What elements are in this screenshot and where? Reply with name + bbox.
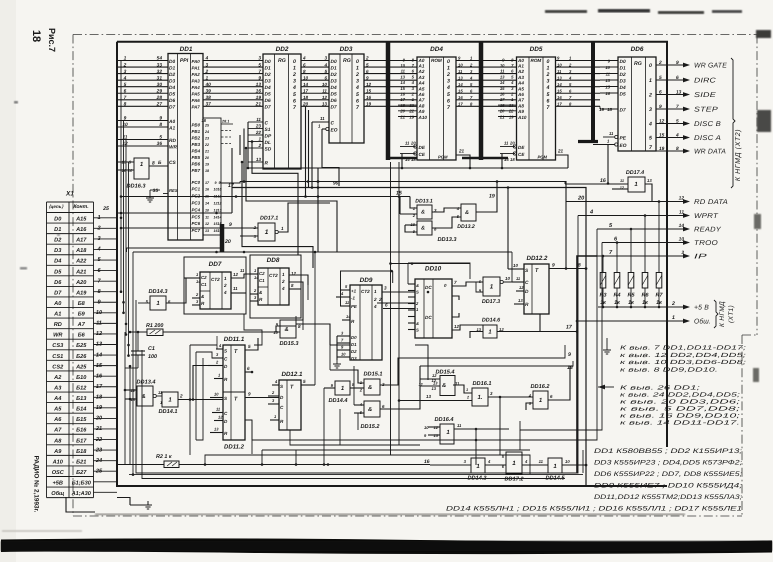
- svg-text:C1: C1: [259, 278, 265, 283]
- svg-text:WR GATE: WR GATE: [694, 63, 727, 70]
- svg-text:1: 1: [265, 229, 269, 236]
- svg-text:8: 8: [676, 146, 679, 152]
- wire DD11 left h2: [196, 352, 223, 358]
- svg-text:DE: DE: [518, 145, 525, 150]
- svg-text:CT2: CT2: [211, 277, 220, 282]
- wire left riser 1: [120, 61, 122, 292]
- svg-text:11: 11: [256, 117, 261, 122]
- wire DD16 feed: [415, 345, 428, 380]
- svg-text:28: 28: [156, 95, 163, 101]
- svg-text:A4: A4: [418, 81, 425, 86]
- svg-text:5: 5: [248, 344, 251, 349]
- svg-text:Б13: Б13: [76, 396, 87, 402]
- svg-text:12: 12: [519, 285, 524, 290]
- svg-text:14: 14: [400, 80, 405, 85]
- svg-text:2: 2: [446, 72, 450, 78]
- wire DD14.4 to DD15.1: [350, 387, 364, 389]
- wire long y213: [117, 212, 232, 214]
- svg-text:9: 9: [659, 104, 662, 110]
- svg-text:2: 2: [223, 283, 227, 288]
- svg-text:19: 19: [509, 114, 514, 119]
- wire DD10 loop top: [391, 263, 471, 265]
- svg-text:DD14.4: DD14.4: [329, 398, 349, 404]
- svg-text:4: 4: [205, 56, 209, 62]
- svg-text:22: 22: [255, 130, 262, 135]
- wire DD15.1 in1: [330, 370, 364, 383]
- svg-text:10: 10: [500, 63, 505, 68]
- svg-text:13: 13: [322, 102, 328, 107]
- svg-text:ROM: ROM: [431, 58, 442, 63]
- svg-text:1: 1: [224, 276, 227, 281]
- wire DD8 R ins: [250, 293, 258, 295]
- svg-text:10: 10: [322, 82, 328, 87]
- svg-text:1: 1: [547, 66, 550, 72]
- svg-text:D4: D4: [169, 85, 175, 91]
- wire DD17.1 in2: [240, 235, 258, 237]
- IC DD6 К555ИР22: [599, 46, 656, 151]
- svg-text:DD4: DD4: [430, 46, 443, 53]
- svg-text:10: 10: [679, 237, 685, 243]
- svg-text:19: 19: [205, 162, 209, 166]
- svg-text:17: 17: [557, 102, 562, 107]
- svg-text:6: 6: [547, 98, 550, 104]
- ground symbol power note: [603, 346, 611, 354]
- svg-text:2: 2: [179, 394, 183, 399]
- svg-text:9: 9: [229, 222, 232, 228]
- svg-text:1: 1: [293, 66, 296, 72]
- svg-text:16: 16: [500, 92, 505, 97]
- svg-text:1: 1: [466, 388, 468, 392]
- wire PB dashed stubs: [221, 131, 231, 144]
- svg-text:38: 38: [206, 95, 212, 101]
- svg-text:DD9: DD9: [360, 277, 373, 284]
- wire PC trunk: [220, 224, 225, 252]
- svg-text:CE: CE: [419, 152, 426, 157]
- svg-text:0: 0: [293, 59, 296, 65]
- svg-text:D0: D0: [169, 59, 175, 65]
- wire bottom h440: [252, 439, 476, 441]
- svg-text:DD15.4: DD15.4: [436, 370, 456, 376]
- scan speck right 1: [756, 30, 771, 38]
- wire mid v330: [329, 324, 331, 370]
- wire DD3 EO down: [322, 129, 339, 186]
- svg-text:A8: A8: [418, 103, 425, 108]
- svg-text:&: &: [465, 210, 469, 216]
- svg-text:13: 13: [500, 74, 505, 79]
- svg-text:11: 11: [609, 131, 614, 136]
- wire DD6 PE stub: [603, 136, 615, 138]
- svg-text:7: 7: [676, 104, 679, 110]
- wire DD16.1 out: [488, 396, 533, 398]
- wire DD14.3 in: [138, 302, 150, 304]
- svg-text:4: 4: [223, 290, 227, 295]
- svg-text:PC5: PC5: [192, 214, 201, 219]
- svg-text:16: 16: [366, 95, 372, 100]
- svg-text:PE: PE: [620, 135, 627, 141]
- wire DD13.1 in2: [400, 213, 417, 215]
- svg-text:6: 6: [447, 98, 450, 104]
- svg-text:D1: D1: [331, 65, 337, 71]
- wire DD2 S1 drop: [243, 129, 245, 182]
- svg-text:STEP: STEP: [694, 107, 718, 114]
- svg-text:D2: D2: [331, 72, 337, 78]
- svg-text:Б21: Б21: [76, 459, 86, 465]
- wire DD2 C drop: [247, 122, 249, 168]
- svg-text:3: 3: [384, 286, 387, 291]
- connector X1 table: [47, 191, 118, 498]
- crop line top: [73, 34, 757, 36]
- svg-text:7: 7: [258, 69, 261, 75]
- flip-flop DD12.2: [524, 255, 549, 314]
- svg-text:A6: A6: [517, 92, 524, 97]
- svg-text:4: 4: [546, 85, 550, 91]
- wire DD4 CE stub: [400, 153, 416, 155]
- svg-text:PGM: PGM: [538, 155, 548, 160]
- svg-text:D7: D7: [54, 290, 62, 296]
- svg-text:15: 15: [504, 157, 509, 162]
- svg-text:A2: A2: [53, 375, 62, 381]
- svg-text:25: 25: [102, 206, 109, 212]
- svg-text:23: 23: [408, 103, 414, 108]
- wire DD13.1b ins: [405, 224, 417, 226]
- svg-text:5: 5: [547, 92, 550, 98]
- svg-text:9: 9: [159, 116, 162, 122]
- wire SD long: [231, 148, 233, 213]
- svg-text:D2: D2: [54, 238, 62, 244]
- ground DD9: [333, 360, 341, 368]
- svg-text:15: 15: [366, 88, 372, 93]
- svg-text:15: 15: [605, 84, 610, 89]
- svg-text:40: 40: [205, 82, 212, 88]
- svg-text:Обш.: Обш.: [694, 318, 711, 326]
- flip-flop DD11.1 DD11.2: [223, 336, 245, 451]
- wire DD16.2 in2: [526, 403, 533, 410]
- svg-text:6: 6: [366, 69, 369, 74]
- svg-text:А15: А15: [75, 217, 87, 223]
- gate DD17.1: [258, 223, 275, 241]
- svg-text:4: 4: [323, 62, 327, 67]
- svg-text:14: 14: [205, 202, 209, 206]
- svg-text:10: 10: [505, 276, 510, 281]
- svg-text:DD15.1: DD15.1: [364, 372, 383, 378]
- wire bus DD2 to DD3: [301, 56, 329, 107]
- svg-text:DD13.2: DD13.2: [457, 224, 475, 230]
- svg-text:17: 17: [400, 97, 405, 102]
- svg-text:5: 5: [258, 62, 261, 68]
- svg-text:28.1: 28.1: [221, 120, 229, 124]
- node output signals WR GATE DIRC SIDE STEP DISC B DISC A WR DATA: [656, 60, 727, 156]
- wire mid v340: [339, 409, 341, 445]
- wire DD10 outs drop: [465, 282, 467, 286]
- wire left riser 1b: [123, 121, 125, 313]
- wire DD7 R ins: [192, 297, 200, 299]
- wire right v520: [519, 430, 521, 450]
- svg-text:21: 21: [499, 114, 505, 119]
- wire DD10 out7: [452, 282, 483, 286]
- svg-text:2: 2: [365, 56, 369, 61]
- svg-text:13: 13: [426, 394, 431, 399]
- svg-text:15: 15: [400, 86, 405, 91]
- wire DD14.6 out: [497, 314, 540, 332]
- svg-text:DC: DC: [425, 315, 432, 320]
- svg-text:C: C: [265, 120, 269, 126]
- svg-text:A4: A4: [517, 81, 524, 86]
- svg-text:18: 18: [201, 118, 206, 123]
- wire DD11 left bundle1: [189, 345, 191, 455]
- svg-text:29: 29: [156, 88, 163, 94]
- wire y248 left: [127, 247, 221, 249]
- svg-text:16: 16: [600, 178, 606, 184]
- wire DD8 out drop: [302, 282, 304, 330]
- svg-text:8: 8: [298, 324, 301, 329]
- wire DD17.1 out: [278, 203, 330, 232]
- wire +5V rail: [598, 306, 687, 308]
- svg-text:14: 14: [405, 157, 410, 162]
- svg-text:RES: RES: [169, 188, 178, 193]
- wire left riser 3: [129, 366, 131, 465]
- svg-text:11: 11: [458, 69, 463, 74]
- svg-text:Б6: Б6: [78, 333, 86, 339]
- wire v430 mid: [427, 345, 429, 380]
- svg-text:D1: D1: [54, 227, 61, 233]
- svg-text:R1 200: R1 200: [146, 323, 163, 329]
- svg-text:A9: A9: [418, 109, 425, 114]
- svg-text:A1: A1: [53, 312, 61, 318]
- bus bar 2 stub left: [462, 157, 481, 160]
- svg-text:16: 16: [256, 88, 262, 94]
- wire mid v358b: [357, 413, 359, 430]
- svg-text:14: 14: [500, 80, 505, 85]
- gate DD14.2: [471, 458, 485, 473]
- svg-text:18: 18: [607, 107, 612, 112]
- svg-text:&: &: [421, 226, 425, 232]
- svg-text:PB3: PB3: [192, 142, 201, 147]
- svg-text:C: C: [525, 280, 529, 286]
- svg-text:к выв. 5 DD7,DD8;: к выв. 5 DD7,DD8;: [620, 406, 741, 413]
- svg-text:17: 17: [500, 97, 505, 102]
- wire DD17.3 ins: [476, 282, 483, 292]
- svg-text:5: 5: [324, 69, 327, 74]
- wire PB0 dashed: [221, 123, 233, 125]
- gate DD15.4: [440, 376, 455, 396]
- svg-text:S1: S1: [265, 127, 271, 133]
- svg-text:CS1: CS1: [52, 354, 63, 360]
- svg-text:10: 10: [557, 62, 562, 67]
- wire DD11 bottom h: [196, 430, 203, 440]
- svg-text:К НГМД: К НГМД: [719, 301, 726, 327]
- svg-text:PA7: PA7: [192, 105, 201, 110]
- wire DD11 bottom: [245, 420, 252, 454]
- svg-text:PB5: PB5: [192, 155, 201, 160]
- svg-text:D4: D4: [54, 259, 62, 265]
- svg-text:DC: DC: [425, 285, 432, 290]
- svg-text:PA4: PA4: [192, 85, 201, 90]
- IC DD3 К555ИР23: [326, 46, 364, 143]
- svg-text:9: 9: [248, 392, 251, 397]
- wire DD5 DE stub: [500, 146, 515, 148]
- svg-text:C: C: [331, 120, 335, 126]
- svg-text:DD8: DD8: [267, 257, 280, 264]
- svg-text:9: 9: [552, 263, 555, 269]
- svg-text:14: 14: [303, 82, 309, 87]
- svg-text:A2: A2: [517, 69, 524, 74]
- wire DD2 DP drop: [239, 135, 241, 155]
- scan speck right 4: [753, 368, 759, 382]
- svg-text:PB1: PB1: [192, 129, 201, 134]
- crop line bottom: [73, 515, 742, 517]
- svg-text:10: 10: [565, 459, 570, 464]
- wire DD16.3 to CS: [149, 165, 168, 167]
- svg-text:22: 22: [508, 109, 514, 114]
- wire DD10 out12: [452, 325, 483, 330]
- svg-text:A3: A3: [418, 75, 425, 80]
- svg-text:A9: A9: [53, 449, 62, 455]
- svg-text:13: 13: [400, 74, 405, 79]
- svg-text:20: 20: [577, 196, 585, 202]
- svg-text:17: 17: [303, 88, 309, 93]
- svg-text:A5: A5: [418, 86, 425, 91]
- svg-text:-1: -1: [351, 296, 355, 301]
- svg-text:D2: D2: [265, 72, 271, 78]
- svg-text:27: 27: [156, 102, 163, 108]
- svg-text:DIRC: DIRC: [694, 78, 717, 85]
- svg-text:Рис.7: Рис.7: [47, 28, 57, 52]
- bus bar 2 stub right: [481, 157, 508, 160]
- wire DD14.1 out: [178, 399, 223, 401]
- svg-text:к выв. 14 DD11-DD17.: к выв. 14 DD11-DD17.: [620, 420, 740, 427]
- svg-text:D2: D2: [620, 72, 626, 78]
- svg-text:36: 36: [157, 141, 163, 147]
- svg-text:OSC: OSC: [52, 470, 65, 476]
- svg-text:DD17.3: DD17.3: [482, 299, 500, 305]
- wire DD17.4 input: [565, 183, 628, 185]
- wire R2 out: [179, 464, 430, 466]
- wire DD10 loop: [408, 263, 470, 279]
- svg-text:5: 5: [676, 118, 679, 124]
- svg-text:9: 9: [124, 116, 127, 122]
- wire DD17.4 in2: [612, 188, 628, 190]
- wire DD5 CE down: [501, 154, 503, 169]
- svg-text:A9: A9: [517, 109, 524, 114]
- svg-text:9: 9: [215, 181, 217, 185]
- svg-text:19: 19: [489, 194, 495, 200]
- wire DD15.4 ins: [420, 378, 440, 380]
- svg-text:D4: D4: [620, 85, 626, 91]
- svg-text:DD13.1: DD13.1: [415, 199, 433, 205]
- svg-text:(XT1): (XT1): [728, 305, 735, 323]
- scan speck top 4: [712, 10, 742, 13]
- svg-text:RD: RD: [169, 138, 176, 144]
- node power pins note 2: [620, 385, 741, 427]
- svg-text:Б14: Б14: [76, 407, 87, 413]
- svg-text:4: 4: [302, 56, 306, 61]
- svg-text:D0: D0: [54, 217, 62, 223]
- wire mid riser2: [323, 388, 325, 445]
- gate DD16.3: [117, 158, 149, 190]
- svg-text:1: 1: [447, 66, 450, 72]
- svg-text:10: 10: [513, 263, 518, 268]
- svg-text:11: 11: [557, 69, 562, 74]
- svg-text:11: 11: [500, 69, 505, 74]
- svg-text:PC4: PC4: [192, 207, 201, 212]
- scan speck right 3: [754, 214, 761, 229]
- svg-text:D7: D7: [620, 107, 626, 113]
- wire data bus to DD1: [117, 56, 168, 108]
- flip-flop DD12.1: [279, 371, 303, 430]
- svg-text:1: 1: [490, 284, 494, 291]
- svg-text:21: 21: [458, 149, 465, 154]
- svg-text:7: 7: [454, 280, 457, 285]
- svg-text:DD16.2: DD16.2: [531, 384, 551, 390]
- svg-text:+5В: +5В: [53, 481, 63, 487]
- svg-text:18: 18: [205, 169, 209, 173]
- svg-text:1к: 1к: [656, 300, 662, 306]
- svg-text:R3: R3: [600, 293, 607, 299]
- svg-text:0: 0: [649, 63, 652, 69]
- wire DD11.2 bots: [251, 420, 253, 440]
- svg-text:C1: C1: [201, 282, 207, 287]
- svg-text:C1: C1: [148, 346, 155, 352]
- wire DD2 R drop: [242, 162, 313, 268]
- svg-text:14: 14: [254, 275, 259, 280]
- svg-text:&: &: [421, 210, 425, 216]
- svg-text:А7: А7: [77, 322, 86, 328]
- bus bar 3: [591, 43, 595, 144]
- svg-text:4: 4: [123, 75, 127, 81]
- svg-text:14: 14: [196, 279, 201, 284]
- svg-text:0: 0: [447, 59, 450, 65]
- svg-text:4: 4: [648, 122, 652, 128]
- wire C1 drop: [137, 332, 139, 351]
- wire left riser 1c: [125, 140, 127, 335]
- svg-text:Конт.: Конт.: [73, 204, 88, 210]
- svg-text:Б17: Б17: [76, 438, 87, 444]
- gate DD16.2: [533, 391, 548, 409]
- wire mid v354: [353, 366, 355, 405]
- wire IP thick drop: [577, 256, 597, 473]
- svg-text:1к: 1к: [614, 300, 620, 306]
- svg-text:PB6: PB6: [192, 161, 201, 166]
- wire right v508: [511, 252, 513, 282]
- svg-text:12: 12: [233, 272, 238, 277]
- svg-text:5: 5: [649, 136, 652, 142]
- svg-text:11: 11: [418, 382, 423, 387]
- svg-text:20: 20: [499, 109, 505, 114]
- svg-text:18: 18: [510, 157, 515, 162]
- wire DD4 high address stubs: [398, 105, 417, 116]
- svg-text:2: 2: [292, 72, 296, 78]
- svg-text:11: 11: [233, 286, 238, 291]
- svg-text:А18: А18: [75, 248, 87, 254]
- svg-text:1: 1: [282, 272, 285, 277]
- svg-text:R2 1 к: R2 1 к: [156, 454, 172, 460]
- svg-text:1: 1: [258, 137, 261, 142]
- svg-text:13: 13: [433, 381, 438, 386]
- svg-text:6: 6: [124, 88, 127, 94]
- svg-text:1к: 1к: [642, 300, 648, 306]
- IC DD10 К555ИД4: [415, 266, 452, 339]
- crop line right lower: [741, 335, 743, 516]
- bracket К НГМД XT2: [731, 58, 735, 188]
- svg-text:20: 20: [509, 141, 515, 146]
- svg-text:22: 22: [204, 143, 209, 147]
- capacitor C1: [131, 350, 145, 352]
- svg-text:5: 5: [159, 135, 162, 141]
- svg-text:D7: D7: [265, 105, 271, 111]
- svg-text:+5 В: +5 В: [694, 305, 709, 312]
- IC DD4 К573РФ2: [399, 46, 456, 160]
- svg-text:16: 16: [605, 91, 610, 96]
